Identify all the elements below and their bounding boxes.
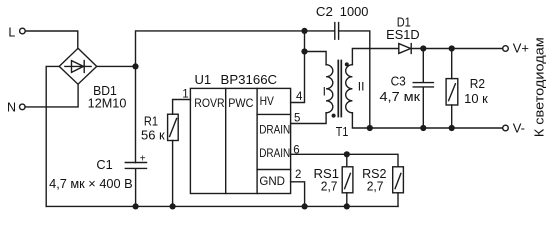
transformer T1 primary winding I xyxy=(326,65,333,113)
wire bottom rail xyxy=(46,205,398,207)
wire secondary bottom lead xyxy=(352,113,502,128)
wire C2 to V- rail xyxy=(339,31,370,128)
svg-text:2: 2 xyxy=(295,169,301,181)
svg-text:T1: T1 xyxy=(336,125,349,139)
wire secondary top lead xyxy=(352,49,398,65)
svg-text:R1: R1 xyxy=(144,115,158,129)
resistor RS1 slash xyxy=(345,173,351,188)
wire pin 2 GND xyxy=(291,182,305,207)
op-amp U1 IC body xyxy=(190,88,290,193)
node HV rail junction xyxy=(301,28,307,34)
node GND rail junction xyxy=(302,203,308,209)
svg-text:4,7 мк × 400 В: 4,7 мк × 400 В xyxy=(49,177,133,191)
node C3 bottom junction xyxy=(420,125,426,131)
svg-text:+: + xyxy=(140,154,146,165)
svg-text:C3: C3 xyxy=(391,74,406,88)
svg-text:I: I xyxy=(323,85,326,99)
svg-text:II: II xyxy=(358,80,365,94)
node C2 V- junction xyxy=(367,125,373,131)
wire primary top lead xyxy=(305,52,327,65)
svg-text:4,7 мк: 4,7 мк xyxy=(380,90,421,104)
wire R1 bottom xyxy=(172,141,174,207)
svg-text:C2: C2 xyxy=(316,5,333,19)
bridge rectifier BD1 diode xyxy=(65,61,91,73)
capacitor C3 xyxy=(413,49,433,129)
node R1 bottom junction xyxy=(170,203,176,209)
svg-text:5: 5 xyxy=(294,112,300,124)
svg-text:N: N xyxy=(7,101,16,115)
node C3 top junction xyxy=(420,45,426,51)
resistor RS2 xyxy=(393,167,404,193)
terminal V- xyxy=(503,125,509,131)
transformer T1 secondary winding II xyxy=(346,65,353,113)
resistor RS2 slash xyxy=(395,173,401,188)
svg-text:ROVR: ROVR xyxy=(194,96,225,110)
capacitor C1 xyxy=(125,163,146,207)
svg-text:V+: V+ xyxy=(513,41,529,56)
node bridge output junction xyxy=(132,63,138,69)
resistor RS1 xyxy=(342,167,353,193)
node R2 top junction xyxy=(449,45,455,51)
terminal N xyxy=(20,104,26,110)
svg-text:C1: C1 xyxy=(96,158,112,172)
transformer T1 secondary phase dot xyxy=(345,62,349,66)
svg-text:GND: GND xyxy=(259,174,285,188)
svg-text:12M10: 12M10 xyxy=(88,96,127,110)
node RS1 bottom junction xyxy=(344,203,350,209)
diode D1 xyxy=(399,44,411,54)
U1 divider HV/DRAIN xyxy=(257,113,291,115)
wire pin 5 to primary bottom xyxy=(291,113,327,124)
svg-text:К светодиодам: К светодиодам xyxy=(532,37,547,137)
wire bridge negative output to bottom rail xyxy=(46,66,59,206)
wire HV top rail xyxy=(136,31,335,163)
wire R2 bottom xyxy=(451,105,453,128)
resistor R2 xyxy=(451,49,453,79)
wire RS2 bottom xyxy=(397,193,399,207)
wire RS1 top lead xyxy=(346,154,348,167)
svg-text:6: 6 xyxy=(293,144,299,156)
terminal V+ xyxy=(503,46,509,52)
node R2 bottom junction xyxy=(449,125,455,131)
resistor R2 slash xyxy=(449,84,456,101)
svg-text:R2: R2 xyxy=(470,77,485,91)
svg-text:1000: 1000 xyxy=(340,5,369,19)
U1 divider ROVR/PWC xyxy=(225,88,227,193)
svg-text:DRAIN: DRAIN xyxy=(259,123,290,137)
svg-text:U1: U1 xyxy=(195,73,212,87)
wire pin 1 to R1 xyxy=(173,100,191,115)
svg-text:56 к: 56 к xyxy=(141,129,165,143)
wire pin 4 HV xyxy=(291,31,305,103)
svg-text:V-: V- xyxy=(513,121,525,136)
svg-text:PWC: PWC xyxy=(228,96,253,110)
svg-text:2,7: 2,7 xyxy=(367,179,384,193)
node primary top junction xyxy=(301,48,307,54)
node C1 bottom junction xyxy=(133,203,139,209)
resistor R1 slash xyxy=(170,119,177,137)
wire bridge positive output xyxy=(97,65,136,67)
svg-text:1: 1 xyxy=(182,88,188,100)
svg-text:DRAIN: DRAIN xyxy=(259,146,290,160)
bridge rectifier BD1 body xyxy=(59,48,96,84)
wire pin 6 xyxy=(291,154,398,167)
terminal L xyxy=(20,28,26,34)
svg-text:4: 4 xyxy=(296,91,303,103)
wire RS1 bottom xyxy=(346,193,348,207)
wire D1 cathode to V+ xyxy=(411,48,503,50)
svg-text:2,7: 2,7 xyxy=(321,179,338,193)
svg-text:ES1D: ES1D xyxy=(386,28,419,42)
wire N input xyxy=(25,84,78,107)
transformer T1 core xyxy=(338,61,341,117)
U1 divider DRAIN/GND xyxy=(257,169,291,171)
wire L input xyxy=(25,31,78,48)
svg-text:HV: HV xyxy=(260,94,274,108)
transformer T1 primary phase dot xyxy=(332,114,336,118)
capacitor C2 xyxy=(335,23,339,40)
node RS1 top junction xyxy=(344,151,350,157)
U1 divider PWC/right column xyxy=(256,88,258,193)
svg-text:L: L xyxy=(8,26,15,40)
resistor R1 xyxy=(168,114,179,140)
svg-text:BP3166C: BP3166C xyxy=(221,73,278,87)
svg-text:10 к: 10 к xyxy=(464,92,488,106)
